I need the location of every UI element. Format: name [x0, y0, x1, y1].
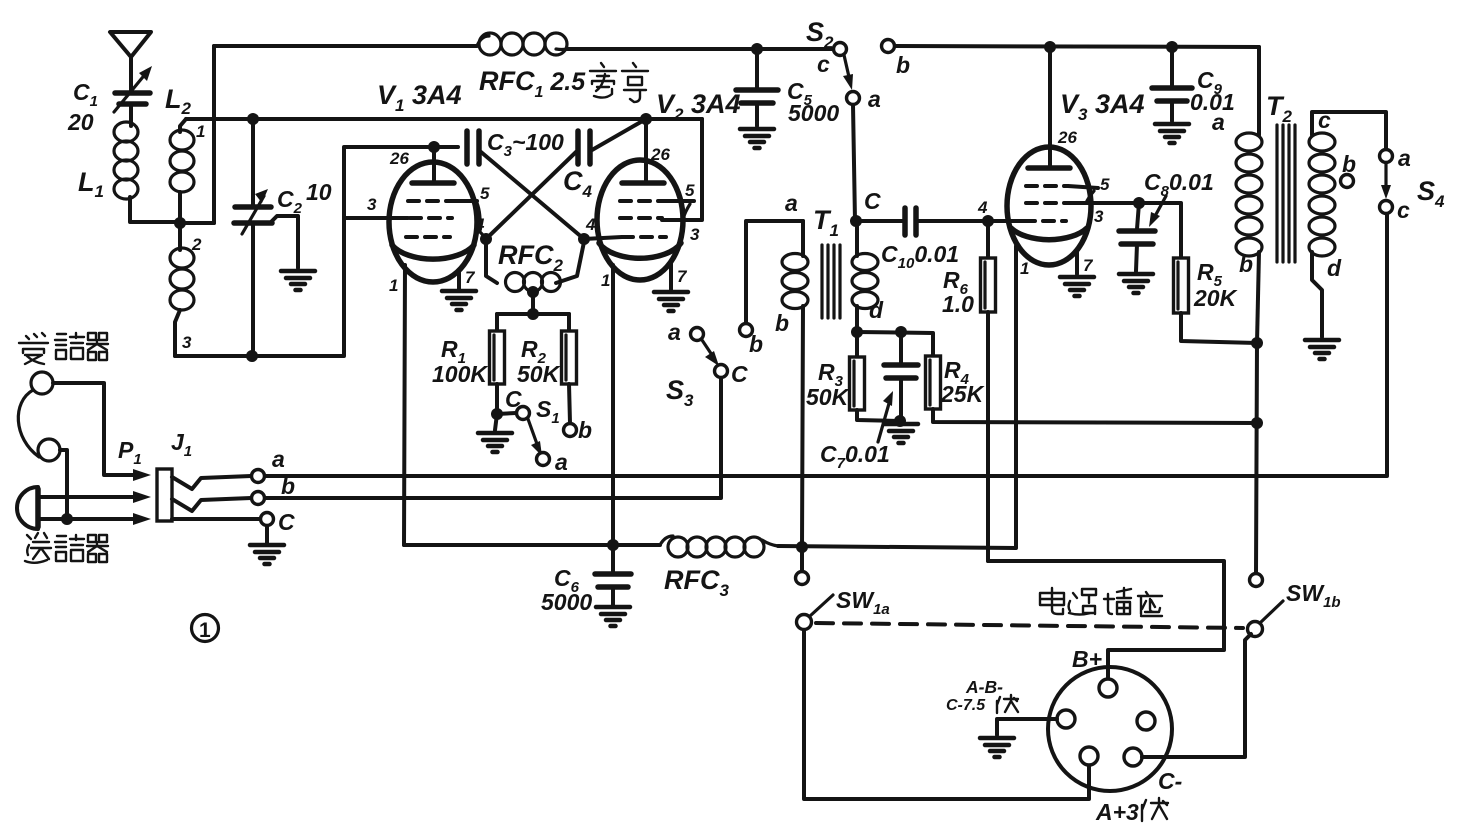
resistor R6: [981, 221, 996, 561]
svg-text:7: 7: [677, 267, 688, 286]
wire L1 bottom to tap junction: [130, 197, 178, 222]
wire S2 a down to T1 c: [853, 105, 855, 221]
svg-text:C: C: [278, 509, 295, 535]
resistor R4: [926, 356, 1258, 423]
svg-text:50K: 50K: [806, 384, 850, 410]
wire C3 to V2 pin4 (diagonal): [481, 152, 584, 239]
wire J1 c to ground: [265, 526, 269, 543]
svg-text:a: a: [272, 446, 285, 472]
resistor R3: [850, 332, 901, 421]
tube V3 filament arc: [1011, 228, 1087, 240]
node R1 bottom junction: [491, 408, 503, 420]
tube V1 grids: [406, 201, 452, 237]
ground (C9): [1155, 124, 1189, 143]
svg-text:A+3: A+3: [1095, 799, 1139, 825]
node C6 junction: [607, 539, 619, 551]
svg-text:1: 1: [389, 276, 398, 295]
wire tank top line: [186, 117, 702, 121]
transformer T2 primary winding: [1236, 47, 1262, 343]
svg-text:1.0: 1.0: [942, 291, 974, 317]
node V3 cap junction on rail: [1044, 41, 1056, 53]
terminal b of J1: [252, 492, 265, 505]
svg-text:a: a: [1398, 145, 1411, 171]
wire bottom tank rail: [175, 218, 344, 356]
node tank/V2 cap junction: [640, 113, 652, 125]
svg-text:C: C: [731, 361, 748, 387]
inductor L2 upper half: [170, 119, 194, 224]
wire C4 to V1 pin4 (diagonal): [486, 152, 576, 239]
svg-text:10: 10: [306, 179, 332, 205]
wire R1 junction to ground: [495, 414, 497, 430]
switch S4 contact a: [1380, 150, 1393, 163]
wire SW1a to A+ pin: [804, 630, 1089, 799]
svg-text:RFC1 2.5: RFC1 2.5: [479, 66, 586, 101]
switch SW1a moving contact: [797, 595, 834, 630]
wire A-B- pin to ground: [997, 719, 1057, 735]
tube V1 filament arc: [392, 245, 474, 259]
terminal c of J1: [261, 513, 274, 526]
terminal SW1b fixed: [1250, 573, 1263, 587]
node T1 d junction: [851, 326, 863, 338]
capacitor C2 (variable): [234, 119, 272, 356]
tube V3 pin5 stub: [1068, 186, 1098, 203]
wire V3 grid (pin4): [1010, 219, 1024, 223]
node R6 top junction: [982, 215, 994, 227]
tube V3 envelope: [1007, 147, 1091, 265]
svg-text:26: 26: [389, 149, 409, 168]
figure number 1: [192, 615, 219, 643]
wire T1 d bar: [857, 332, 933, 356]
transformer T2 secondary winding: [1309, 112, 1386, 337]
svg-text:a: a: [868, 86, 881, 112]
wire R1/R2 top bar: [497, 312, 569, 316]
svg-text:1: 1: [1020, 259, 1029, 278]
wire V1 grid riser to cap: [344, 147, 458, 218]
switch S3 arm: [702, 340, 719, 366]
capacitor C7: [884, 332, 918, 421]
svg-text:V3 3A4: V3 3A4: [1060, 89, 1145, 124]
switch S1 contact b: [564, 424, 577, 437]
svg-text:50K: 50K: [517, 361, 561, 387]
capacitor C6: [595, 545, 631, 605]
node mic/phones common junction: [61, 513, 73, 525]
wire T2 b down to SW1b: [1256, 343, 1257, 573]
ground (T2 d): [1305, 340, 1339, 359]
switch S1 arm: [528, 419, 542, 456]
wire RFC2 tap down: [531, 292, 535, 314]
svg-text:c: c: [1397, 197, 1410, 223]
node V1 pin4 junction: [480, 233, 492, 245]
wire C4 to tank line (diagonal): [592, 119, 646, 150]
switch S1 contact c: [517, 407, 530, 420]
node C2 top junction: [247, 113, 259, 125]
node C7 top junction: [895, 326, 907, 338]
choke RFC2: [486, 241, 584, 292]
switch S2 arm: [843, 55, 853, 90]
svg-text:3: 3: [690, 225, 700, 244]
svg-text:26: 26: [1057, 128, 1077, 147]
svg-text:5: 5: [685, 181, 695, 200]
ground (V3 pin7): [1075, 250, 1079, 274]
node SW1a junction on rail: [796, 541, 808, 553]
choke RFC3: [660, 536, 778, 557]
svg-text:100K: 100K: [432, 361, 488, 387]
jack J1 contact a spring: [172, 476, 251, 489]
node tap2 junction of L1/L2: [174, 217, 186, 229]
svg-text:C: C: [864, 188, 881, 214]
switch S3 contact c: [715, 365, 728, 378]
wire S3 b to T1 a: [746, 221, 803, 323]
svg-text:20: 20: [67, 109, 94, 135]
wire top rail right segment: [895, 46, 1259, 47]
transformer T1 primary winding: [782, 221, 808, 547]
tube V2 top cap (pins 2,6): [622, 119, 664, 183]
svg-text:3: 3: [367, 195, 377, 214]
jack J1 body: [157, 469, 172, 521]
ground (A-B- pin): [980, 738, 1014, 757]
svg-text:b: b: [1342, 151, 1356, 177]
svg-text:b: b: [775, 310, 789, 336]
switch S1 contact a: [537, 453, 550, 466]
capacitor C9: [1152, 47, 1192, 121]
tube V2 grids: [620, 201, 666, 237]
capacitor C1 (variable, antenna trimmer): [114, 66, 152, 112]
svg-text:5: 5: [1100, 175, 1110, 194]
svg-text:a: a: [785, 190, 798, 216]
node C5 junction on rail: [751, 43, 763, 55]
svg-text:C-7.5: C-7.5: [946, 697, 986, 714]
plug P1 arrows: [133, 469, 151, 525]
terminal a of J1: [252, 470, 265, 483]
label C8 0.01 with arrow: [1144, 169, 1214, 227]
node R4/T2 junction: [1251, 417, 1263, 429]
svg-text:4: 4: [474, 215, 485, 234]
terminal SW1a fixed: [796, 547, 809, 585]
transformer T2 core: [1277, 125, 1295, 262]
switch S4 contact b: [1341, 175, 1354, 188]
wire gang dashed link: [816, 623, 1243, 628]
switch S4 contact c: [1380, 201, 1393, 214]
svg-text:C: C: [505, 386, 522, 412]
wire C2 to ground: [270, 216, 298, 268]
tube V1 envelope: [389, 162, 477, 282]
wire phones to P1 top prong: [53, 383, 136, 475]
ground (J1 c): [250, 545, 284, 564]
node C8 junction: [1133, 197, 1145, 209]
ground (V2 pin7): [669, 262, 673, 290]
ground (C5): [740, 129, 774, 148]
wire R5 top: [1139, 203, 1181, 258]
resistor R1: [490, 314, 505, 413]
tube V1 top cap (pins 2,6): [412, 147, 454, 183]
antenna: [110, 32, 151, 91]
tube V2 side stub pin5: [664, 201, 694, 219]
wire rail RFC3 to V3 corner: [778, 246, 1016, 548]
svg-text:26: 26: [650, 145, 670, 164]
wire V2 pin1 down: [611, 265, 615, 545]
svg-text:3: 3: [1094, 207, 1104, 226]
socket pin A-B-: [1057, 710, 1075, 728]
node C7 bottom junction: [894, 415, 906, 427]
svg-text:C-: C-: [1158, 768, 1182, 794]
wire riser x214 to top rail: [212, 46, 216, 223]
svg-text:a: a: [668, 319, 681, 345]
switch S2 contact a: [847, 92, 860, 105]
label 受話器 (receiver): [19, 333, 108, 364]
node V2 pin4 junction: [578, 233, 590, 245]
wire top rail left: [214, 44, 477, 48]
inductor L2 lower half: [170, 224, 194, 356]
headphones (receiver): [18, 372, 60, 461]
resistor R5: [1174, 258, 1258, 343]
capacitor C5: [736, 49, 778, 126]
tube V1 side connection 5/4: [452, 201, 486, 238]
label 毫亨 (mH): [590, 63, 648, 102]
socket pin C-: [1124, 748, 1142, 766]
svg-text:c: c: [1318, 107, 1331, 133]
wire C- pin to SW1b: [1142, 634, 1251, 757]
wire V1 grid (pin3): [344, 216, 408, 220]
tube V2 envelope: [597, 160, 683, 280]
wire mic bottom prong: [40, 517, 136, 521]
wire to S1 contact c: [497, 413, 516, 414]
svg-text:4: 4: [585, 215, 596, 234]
ground (C8): [1119, 274, 1153, 293]
node C2 bottom junction: [246, 350, 258, 362]
label C7 0.01 with arrow: [820, 391, 893, 472]
socket pin B+: [1099, 679, 1117, 697]
svg-text:V1 3A4: V1 3A4: [377, 80, 462, 115]
svg-text:1: 1: [601, 271, 610, 290]
switch S3 contact a: [691, 328, 704, 341]
svg-text:d: d: [1327, 255, 1342, 281]
svg-text:20K: 20K: [1193, 285, 1238, 311]
svg-text:5000: 5000: [541, 589, 592, 615]
wire long line a (J1 a to S4 c): [265, 214, 1387, 476]
svg-text:b: b: [896, 52, 910, 78]
svg-text:1: 1: [196, 122, 205, 141]
node R5/T2 b junction: [1251, 337, 1263, 349]
tube V3 top cap (pins 2,6): [1028, 47, 1070, 168]
tube V2 filament arc: [599, 243, 681, 258]
svg-text:a: a: [1212, 109, 1225, 135]
svg-text:V2 3A4: V2 3A4: [656, 89, 741, 124]
svg-text:b: b: [749, 331, 763, 357]
svg-text:d: d: [869, 297, 884, 323]
wire V2 grid from tank corner: [662, 119, 702, 220]
node V1 cap junction: [428, 141, 440, 153]
label 送話器 (transmitter): [25, 533, 108, 563]
switch S2 contact b: [882, 40, 895, 53]
wire phones lower to mic common: [60, 450, 67, 519]
switch S2 contact c: [834, 43, 847, 56]
switch S4 arm: [1381, 164, 1391, 199]
svg-text:4: 4: [977, 198, 988, 217]
ground (R1/S1): [478, 433, 512, 452]
svg-text:7: 7: [465, 268, 476, 287]
svg-text:5000: 5000: [788, 100, 839, 126]
jack J1 contact b spring: [172, 498, 251, 511]
svg-text:a: a: [555, 449, 568, 475]
capacitor C10: [856, 208, 1010, 235]
wire long line b (J1 b to S3 c): [265, 378, 721, 498]
label 电源插座 (power socket): [1040, 588, 1162, 616]
svg-text:3: 3: [182, 333, 192, 352]
jack J1 contact c: [172, 517, 260, 521]
wire C1 to L1: [129, 104, 133, 126]
capacitor C4: [578, 131, 590, 164]
ground (V1 pin7): [457, 270, 461, 289]
wire tap2 to riser: [180, 221, 214, 225]
svg-text:25K: 25K: [940, 381, 985, 407]
label A+3V: [1095, 798, 1168, 825]
resistor R2: [562, 314, 577, 423]
transformer T1 core: [822, 245, 840, 318]
node C9 junction on rail: [1166, 41, 1178, 53]
label C-7.5V: [946, 695, 1018, 714]
power socket outline: [1048, 667, 1172, 791]
ground (C7): [884, 424, 918, 443]
wire V3 pin3 out: [1066, 201, 1139, 205]
switch SW1b moving contact: [1248, 601, 1284, 637]
switch S3 contact b: [740, 324, 753, 337]
socket pin spare: [1137, 712, 1155, 730]
wire mic top prong: [40, 495, 136, 499]
wire filament rail: [404, 543, 660, 547]
wire V2 pin4 stub: [584, 237, 622, 239]
microphone (transmitter) symbol: [17, 487, 38, 529]
wire V1 pin1 down: [404, 265, 405, 545]
tube V3 grids: [1024, 186, 1068, 221]
svg-text:5: 5: [480, 184, 490, 203]
wire B+ feed from R6: [988, 561, 1224, 678]
svg-text:c: c: [817, 51, 830, 77]
transformer T1 secondary winding: [852, 221, 878, 332]
node R1/R2 tee: [527, 308, 539, 320]
svg-text:b: b: [1239, 251, 1253, 277]
svg-text:7: 7: [1083, 256, 1094, 275]
node RFC2 centre tap: [527, 286, 539, 298]
node T1 c junction: [850, 215, 862, 227]
inductor L1: [114, 122, 138, 199]
svg-text:A-B-: A-B-: [965, 677, 1003, 697]
socket pin A+: [1080, 747, 1098, 765]
choke RFC1: [477, 33, 567, 55]
svg-text:1: 1: [199, 619, 211, 642]
svg-text:b: b: [578, 417, 592, 443]
ground (C6): [596, 607, 630, 626]
wire top rail right of RFC1: [567, 47, 834, 51]
ground (C2): [281, 271, 315, 290]
capacitor C8: [1119, 203, 1155, 271]
capacitor C3: [467, 131, 479, 164]
